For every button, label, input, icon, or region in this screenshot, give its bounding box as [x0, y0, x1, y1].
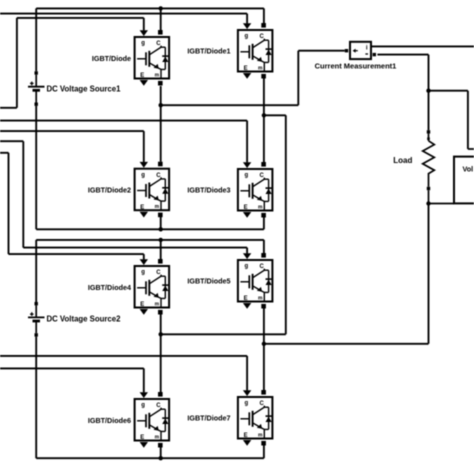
wire bus2+ drop to U5.C: [160, 240, 162, 259]
node bus1+ junction: [159, 6, 163, 10]
node load top junction: [426, 89, 430, 93]
wire gate drop U4: [246, 121, 248, 163]
wire load top to voltage measurement +: [429, 91, 474, 149]
svg-text:IGBT/Diode6: IGBT/Diode6: [88, 416, 131, 425]
svg-text:g: g: [245, 264, 249, 270]
wire gate feed U6 (from left edge): [0, 141, 247, 247]
transistor U8 IGBT/Diode7 (IGBT/Diode block): [238, 390, 273, 446]
wire load bottom to voltage measurement: [429, 203, 455, 205]
svg-text:g: g: [141, 172, 145, 178]
svg-text:m: m: [155, 301, 160, 307]
svg-text:m: m: [258, 204, 263, 210]
svg-text:DC Voltage Source1: DC Voltage Source1: [47, 84, 122, 93]
svg-text:E: E: [140, 205, 144, 211]
wire bus2- horizontal: [36, 457, 264, 459]
wire gate feed U4 (from left edge): [0, 120, 247, 122]
svg-text:IGBT/Diode2: IGBT/Diode2: [88, 186, 131, 195]
svg-text:m: m: [155, 72, 160, 78]
wire U1.m to U3.C: [160, 86, 162, 162]
transistor U1 IGBT/Diode (IGBT/Diode block): [135, 30, 170, 86]
svg-text:IGBT/Diode: IGBT/Diode: [92, 54, 131, 63]
wire gate drop U8: [246, 356, 248, 391]
svg-text:m: m: [155, 434, 160, 440]
svg-text:E: E: [244, 433, 248, 439]
wire to Current Measurement1 +: [298, 50, 345, 52]
svg-text:E: E: [244, 205, 248, 211]
voltage measurement block (cut off at right edge): [454, 157, 474, 204]
node bus1- junction: [159, 227, 163, 231]
svg-text:IGBT/Diode7: IGBT/Diode7: [187, 414, 230, 423]
node C junction: [159, 332, 163, 336]
svg-text:g: g: [245, 173, 249, 179]
svg-text:g: g: [245, 401, 249, 407]
DC voltage source V1 (battery symbol): [28, 71, 45, 106]
wire node A horizontal: [161, 104, 299, 106]
wire bus1+ horizontal: [36, 7, 264, 9]
wire bus2+ drop to U6.C: [263, 240, 265, 253]
node load bottom junction: [426, 201, 430, 205]
svg-text:IGBT/Diode4: IGBT/Diode4: [88, 283, 131, 292]
svg-text:Vol: Vol: [463, 164, 474, 173]
wire U5.m to U7.C: [160, 315, 162, 393]
svg-text:IGBT/Diode3: IGBT/Diode3: [187, 186, 230, 195]
wire gate feed U5 (from left edge): [0, 153, 144, 254]
wire CM - to load node: [377, 54, 428, 56]
transistor U5 IGBT/Diode4 (IGBT/Diode block): [135, 259, 170, 315]
svg-text:DC Voltage Source2: DC Voltage Source2: [47, 314, 122, 323]
wire gate feed U8 (from left edge): [0, 355, 247, 357]
wire bus1- horizontal: [36, 228, 264, 230]
svg-text:g: g: [141, 41, 145, 47]
wire node D horizontal: [264, 343, 429, 345]
svg-text:Load: Load: [393, 156, 412, 165]
svg-text:Current Measurement1: Current Measurement1: [315, 61, 397, 70]
wire to load top terminal: [428, 91, 430, 131]
wire U4.m to bus1-: [263, 217, 265, 229]
wire node B to node C: [161, 333, 286, 335]
transistor U4 IGBT/Diode3 (IGBT/Diode block): [238, 162, 273, 218]
wire U3.m to bus1-: [160, 217, 162, 230]
wire battery1 + lead: [35, 8, 37, 71]
transistor U6 IGBT/Diode5 (IGBT/Diode block): [238, 253, 273, 309]
svg-text:E: E: [244, 296, 248, 302]
wire gate feed U3 (from left edge): [0, 130, 144, 132]
svg-text:E: E: [140, 302, 144, 308]
wire node A riser: [297, 51, 299, 105]
wire down to load top node: [428, 55, 430, 91]
wire bus2+ horizontal: [36, 239, 264, 241]
wire battery2 - lead: [35, 337, 37, 459]
svg-text:m: m: [155, 204, 160, 210]
transistor U2 IGBT/Diode1 (IGBT/Diode block): [238, 23, 273, 79]
wire gate feed U2 (from left edge): [0, 13, 247, 15]
node bus2+ junction: [159, 238, 163, 242]
wire U7.m to bus2-: [160, 448, 162, 459]
svg-text:m: m: [258, 65, 263, 71]
node B junction: [262, 113, 266, 117]
wire node B horizontal: [264, 114, 286, 116]
wire i signal to right edge: [371, 45, 474, 47]
wire gate feed U1 (from left edge): [0, 18, 144, 108]
wire gate drop U6: [246, 248, 248, 254]
node D junction: [262, 342, 266, 346]
transistor U3 IGBT/Diode2 (IGBT/Diode block): [135, 162, 170, 218]
node bus2- junction: [159, 456, 163, 460]
wire load return vertical: [428, 204, 430, 344]
svg-text:IGBT/Diode5: IGBT/Diode5: [187, 277, 230, 286]
current measurement block CM1: [345, 42, 376, 59]
svg-text:g: g: [245, 34, 249, 40]
wire U8.m to bus2-: [263, 446, 265, 459]
svg-text:i: i: [366, 45, 368, 52]
wire gate feed U7 (from left edge): [0, 367, 144, 369]
wire gate drop U3: [143, 131, 145, 162]
svg-text:g: g: [141, 270, 145, 276]
svg-text:g: g: [141, 403, 145, 409]
svg-text:m: m: [258, 295, 263, 301]
svg-text:E: E: [244, 66, 248, 72]
svg-text:E: E: [140, 73, 144, 79]
wire bus1+ drop to U2.C: [263, 8, 265, 23]
wire U6.m to U8.C: [263, 309, 265, 391]
DC voltage source V2 (battery symbol): [28, 302, 45, 337]
svg-text:IGBT/Diode1: IGBT/Diode1: [187, 46, 230, 55]
wire gate drop U1: [143, 18, 145, 31]
wire battery2 + lead: [35, 240, 37, 302]
wire gate drop U5: [143, 254, 145, 259]
svg-text:m: m: [258, 432, 263, 438]
node A junction: [159, 103, 163, 107]
transistor U7 IGBT/Diode6 (IGBT/Diode block): [135, 392, 170, 448]
wire battery1 - lead: [35, 106, 37, 229]
resistor Load: [423, 130, 435, 203]
wire gate drop U2: [246, 14, 248, 24]
svg-text:E: E: [140, 435, 144, 441]
wire gate drop U7: [143, 368, 145, 392]
wire node B long vertical: [285, 115, 287, 334]
wire bus1+ drop to U1.C: [160, 8, 162, 30]
wire U2.m to U4.C: [263, 78, 265, 162]
